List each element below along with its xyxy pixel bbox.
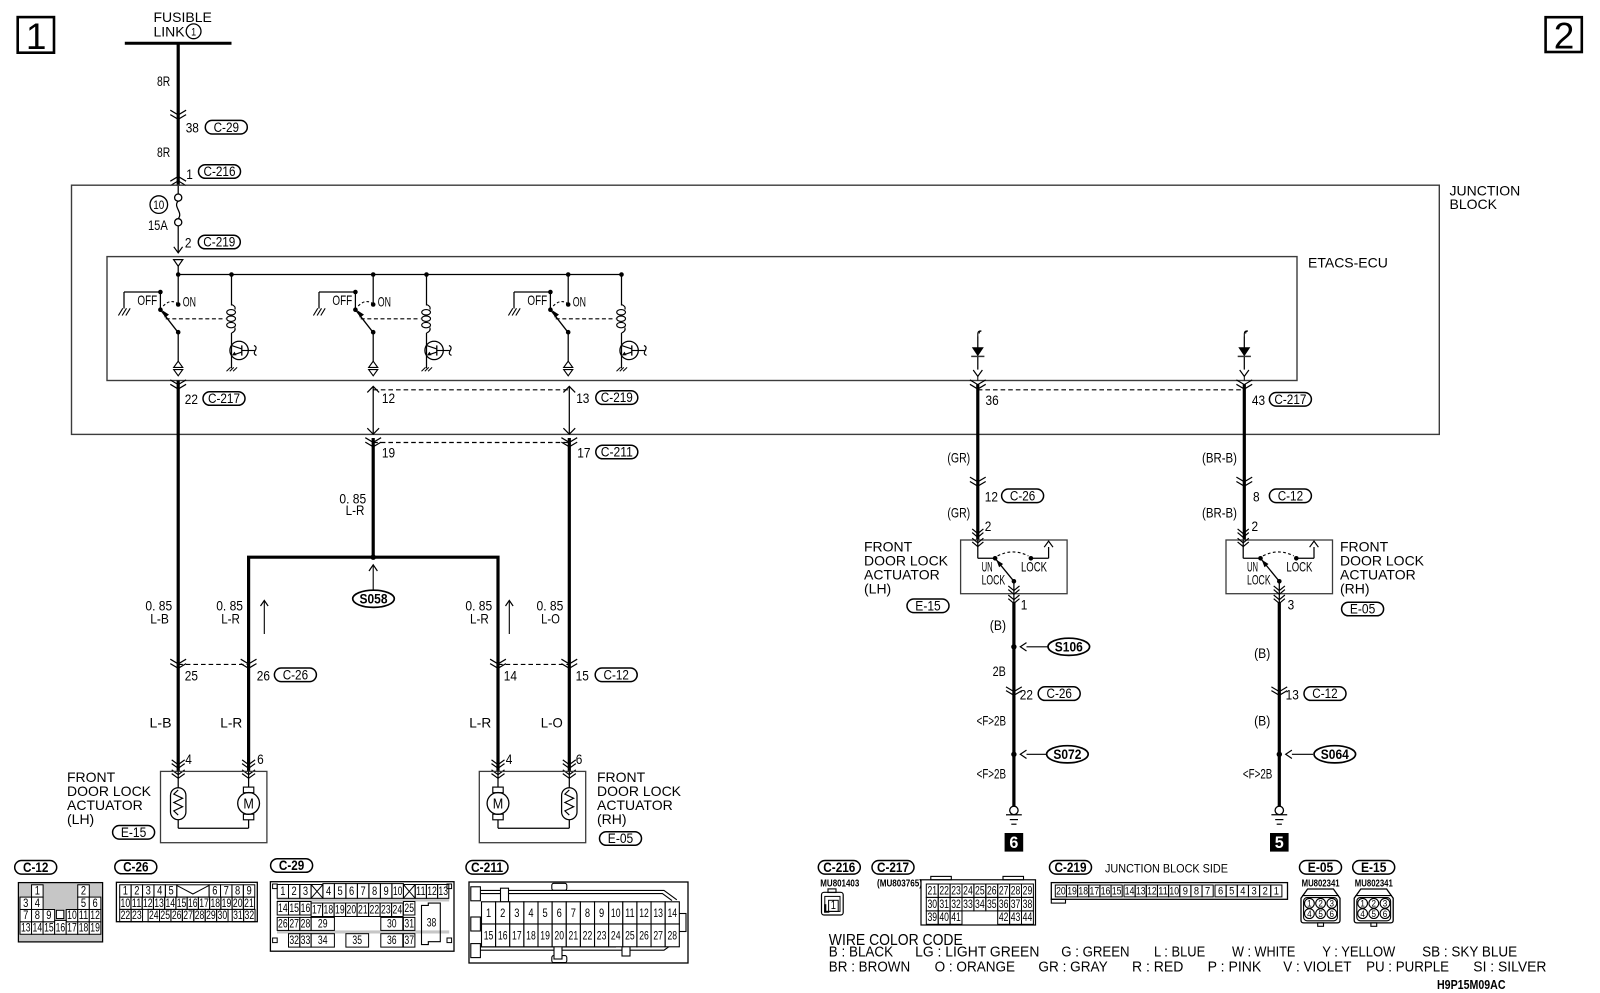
svg-text:18: 18 (324, 902, 334, 916)
svg-text:O : ORANGE: O : ORANGE (935, 959, 1016, 975)
svg-text:12: 12 (427, 884, 437, 898)
svg-text:36: 36 (387, 933, 397, 947)
svg-text:(GR): (GR) (947, 450, 970, 466)
svg-text:OFF: OFF (332, 292, 352, 308)
svg-text:20: 20 (1056, 886, 1066, 898)
svg-text:C-219: C-219 (601, 390, 633, 405)
svg-text:17: 17 (312, 902, 322, 916)
svg-text:31: 31 (939, 898, 949, 911)
svg-text:S064: S064 (1321, 747, 1349, 762)
svg-text:5: 5 (542, 906, 547, 920)
svg-text:17: 17 (577, 444, 590, 460)
svg-text:24: 24 (963, 884, 973, 897)
svg-text:12: 12 (382, 390, 395, 406)
svg-text:(GR): (GR) (947, 504, 970, 520)
svg-text:9: 9 (599, 906, 604, 920)
svg-text:C-211: C-211 (471, 860, 503, 875)
svg-text:22: 22 (370, 902, 380, 916)
svg-text:25: 25 (185, 668, 198, 684)
svg-text:ON: ON (573, 293, 586, 309)
svg-text:(LH): (LH) (67, 811, 94, 827)
svg-text:C-216: C-216 (204, 164, 236, 179)
svg-text:1: 1 (280, 884, 285, 898)
svg-text:M: M (243, 796, 254, 812)
svg-text:JUNCTION BLOCK SIDE: JUNCTION BLOCK SIDE (1105, 863, 1228, 875)
svg-text:15: 15 (289, 901, 299, 915)
svg-text:13: 13 (653, 906, 663, 920)
svg-text:E-05: E-05 (1308, 860, 1334, 875)
svg-text:6: 6 (1218, 886, 1223, 898)
svg-text:17: 17 (512, 929, 522, 943)
svg-text:7: 7 (571, 906, 576, 920)
svg-text:39: 39 (927, 911, 937, 924)
svg-text:23: 23 (597, 929, 607, 943)
svg-text:26: 26 (172, 908, 182, 922)
svg-text:4: 4 (185, 751, 192, 767)
svg-text:38: 38 (186, 119, 199, 135)
svg-text:34: 34 (975, 898, 985, 911)
svg-text:36: 36 (999, 898, 1009, 911)
svg-text:40: 40 (939, 911, 949, 924)
svg-text:10: 10 (611, 906, 621, 920)
svg-text:BLOCK: BLOCK (1450, 196, 1498, 212)
svg-text:22: 22 (583, 929, 593, 943)
svg-text:14: 14 (33, 921, 43, 935)
svg-text:L : BLUE: L : BLUE (1154, 945, 1205, 961)
svg-text:C-211: C-211 (601, 445, 633, 460)
svg-text:L-O: L-O (541, 611, 560, 627)
svg-text:36: 36 (986, 392, 999, 408)
svg-text:C-216: C-216 (823, 860, 855, 875)
svg-text:(RH): (RH) (597, 811, 627, 827)
svg-text:8R: 8R (157, 73, 170, 89)
svg-text:4: 4 (1307, 909, 1312, 920)
svg-text:33: 33 (301, 933, 311, 947)
svg-text:11: 11 (1158, 886, 1168, 898)
svg-text:27: 27 (999, 884, 1009, 897)
svg-text:31: 31 (404, 917, 414, 931)
svg-text:28: 28 (195, 908, 205, 922)
svg-text:6: 6 (349, 884, 354, 898)
svg-text:15: 15 (1112, 886, 1122, 898)
svg-text:C-26: C-26 (283, 667, 308, 682)
svg-text:16: 16 (1101, 886, 1111, 898)
svg-text:21: 21 (569, 929, 579, 943)
svg-text:4: 4 (326, 884, 331, 898)
svg-text:MU802341: MU802341 (1302, 877, 1340, 889)
svg-text:38: 38 (427, 916, 437, 930)
svg-text:44: 44 (1023, 911, 1033, 924)
svg-text:8: 8 (1253, 488, 1260, 504)
svg-text:W : WHITE: W : WHITE (1232, 945, 1296, 961)
svg-text:9: 9 (384, 884, 389, 898)
svg-text:30: 30 (218, 908, 228, 922)
svg-text:8R: 8R (157, 144, 170, 160)
svg-text:22: 22 (185, 391, 198, 407)
svg-text:43: 43 (1252, 392, 1265, 408)
svg-text:(B): (B) (990, 617, 1006, 633)
svg-text:10: 10 (1169, 886, 1179, 898)
svg-text:38: 38 (1023, 898, 1033, 911)
svg-text:13: 13 (1286, 686, 1299, 702)
svg-text:28: 28 (1011, 884, 1021, 897)
svg-text:2: 2 (985, 518, 992, 534)
svg-text:30: 30 (387, 917, 397, 931)
svg-text:OFF: OFF (527, 292, 547, 308)
svg-text:H9P15M09AC: H9P15M09AC (1437, 977, 1506, 992)
svg-text:LINK: LINK (154, 24, 186, 40)
svg-text:30: 30 (927, 898, 937, 911)
svg-text:E-15: E-15 (1361, 860, 1387, 875)
svg-text:15: 15 (44, 921, 54, 935)
svg-text:10: 10 (393, 884, 403, 898)
svg-text:21: 21 (358, 902, 368, 916)
svg-text:24: 24 (611, 929, 621, 943)
svg-text:24: 24 (393, 902, 403, 916)
svg-text:S072: S072 (1053, 747, 1081, 762)
svg-text:L-R: L-R (346, 502, 365, 518)
svg-text:5: 5 (338, 884, 343, 898)
svg-text:16: 16 (56, 921, 66, 935)
svg-text:32: 32 (951, 898, 961, 911)
svg-text:1: 1 (831, 898, 836, 912)
svg-text:R : RED: R : RED (1132, 959, 1183, 975)
svg-text:LOCK: LOCK (1021, 558, 1047, 574)
svg-text:LOCK: LOCK (982, 571, 1006, 587)
svg-text:L-R: L-R (220, 715, 242, 731)
svg-text:ETACS-ECU: ETACS-ECU (1308, 255, 1388, 271)
svg-text:26: 26 (987, 884, 997, 897)
svg-text:C-217: C-217 (877, 860, 909, 875)
svg-text:20: 20 (554, 929, 564, 943)
svg-text:32: 32 (289, 933, 299, 947)
svg-text:S058: S058 (360, 592, 388, 607)
svg-text:25: 25 (975, 884, 985, 897)
svg-text:B : BLACK: B : BLACK (829, 945, 894, 961)
svg-text:S106: S106 (1055, 640, 1083, 655)
svg-text:35: 35 (987, 898, 997, 911)
svg-text:<F>2B: <F>2B (977, 765, 1006, 781)
svg-text:43: 43 (1011, 911, 1021, 924)
svg-text:18: 18 (1078, 886, 1088, 898)
svg-text:16: 16 (498, 929, 508, 943)
svg-text:5: 5 (1275, 833, 1284, 852)
svg-text:C-12: C-12 (23, 860, 48, 875)
svg-text:28: 28 (301, 917, 311, 931)
svg-text:37: 37 (1011, 898, 1021, 911)
svg-text:13: 13 (1136, 886, 1146, 898)
svg-text:C-12: C-12 (1278, 488, 1303, 503)
svg-text:1: 1 (186, 166, 193, 182)
svg-text:M: M (493, 796, 504, 812)
svg-text:ON: ON (183, 293, 196, 309)
svg-text:4: 4 (1240, 886, 1245, 898)
svg-text:29: 29 (318, 917, 328, 931)
svg-text:L-R: L-R (469, 715, 491, 731)
svg-text:29: 29 (1023, 884, 1033, 897)
svg-text:(BR-B): (BR-B) (1202, 504, 1237, 520)
svg-text:C-12: C-12 (1312, 686, 1337, 701)
svg-text:2: 2 (1554, 16, 1575, 57)
svg-text:10: 10 (153, 198, 164, 212)
svg-text:17: 17 (67, 921, 77, 935)
svg-text:13: 13 (21, 921, 31, 935)
svg-text:24: 24 (149, 908, 159, 922)
svg-text:16: 16 (301, 901, 311, 915)
svg-text:L-O: L-O (541, 715, 563, 731)
svg-text:1: 1 (1021, 596, 1028, 612)
svg-text:42: 42 (999, 911, 1009, 924)
svg-text:31: 31 (233, 908, 243, 922)
svg-text:7: 7 (361, 884, 366, 898)
svg-text:2B: 2B (993, 663, 1006, 679)
svg-text:8: 8 (1194, 886, 1199, 898)
svg-text:SI : SILVER: SI : SILVER (1473, 959, 1546, 975)
svg-text:E-15: E-15 (915, 598, 940, 613)
svg-text:17: 17 (1090, 886, 1100, 898)
svg-text:E-05: E-05 (1350, 602, 1375, 617)
svg-text:19: 19 (1067, 886, 1077, 898)
svg-text:4: 4 (1360, 909, 1365, 920)
svg-text:(B): (B) (1254, 712, 1270, 728)
svg-text:5: 5 (1372, 909, 1377, 920)
svg-text:37: 37 (404, 933, 414, 947)
svg-text:34: 34 (318, 933, 328, 947)
svg-text:2: 2 (185, 234, 192, 250)
svg-text:29: 29 (206, 908, 216, 922)
svg-text:26: 26 (639, 929, 649, 943)
svg-text:22: 22 (1020, 686, 1033, 702)
svg-text:18: 18 (79, 921, 89, 935)
svg-text:GR : GRAY: GR : GRAY (1038, 959, 1108, 975)
svg-text:3: 3 (303, 884, 308, 898)
svg-text:E-05: E-05 (608, 831, 633, 846)
svg-text:C-29: C-29 (279, 858, 304, 873)
svg-text:2: 2 (292, 884, 297, 898)
svg-text:13: 13 (576, 390, 589, 406)
svg-text:2: 2 (1263, 886, 1268, 898)
svg-text:8: 8 (585, 906, 590, 920)
svg-text:PU : PURPLE: PU : PURPLE (1366, 959, 1449, 975)
svg-text:25: 25 (625, 929, 635, 943)
svg-text:P : PINK: P : PINK (1208, 959, 1262, 975)
svg-text:6: 6 (1009, 833, 1018, 852)
svg-text:9: 9 (1183, 886, 1188, 898)
svg-text:6: 6 (1383, 909, 1388, 920)
svg-text:7: 7 (1205, 886, 1210, 898)
svg-text:6: 6 (1330, 909, 1335, 920)
svg-text:33: 33 (963, 898, 973, 911)
svg-text:LG : LIGHT GREEN: LG : LIGHT GREEN (915, 945, 1039, 961)
svg-text:C-26: C-26 (1010, 488, 1035, 503)
svg-text:SB : SKY BLUE: SB : SKY BLUE (1422, 945, 1517, 961)
svg-text:4: 4 (506, 751, 513, 767)
svg-text:3: 3 (1251, 886, 1256, 898)
svg-text:(RH): (RH) (1340, 581, 1370, 597)
svg-text:ON: ON (378, 293, 391, 309)
svg-text:L-R: L-R (221, 611, 240, 627)
svg-text:25: 25 (160, 908, 170, 922)
svg-text:L-R: L-R (470, 611, 489, 627)
svg-text:2: 2 (500, 906, 505, 920)
svg-text:MU802341: MU802341 (1355, 877, 1393, 889)
svg-text:28: 28 (667, 929, 677, 943)
svg-text:19: 19 (335, 902, 345, 916)
svg-text:V : VIOLET: V : VIOLET (1283, 959, 1351, 975)
svg-text:1: 1 (1274, 886, 1279, 898)
svg-text:<F>2B: <F>2B (1243, 765, 1272, 781)
svg-text:C-26: C-26 (123, 860, 149, 875)
svg-text:21: 21 (927, 884, 937, 897)
svg-text:27: 27 (183, 908, 193, 922)
svg-text:25: 25 (404, 901, 414, 915)
svg-text:23: 23 (132, 908, 142, 922)
svg-text:G : GREEN: G : GREEN (1061, 945, 1129, 961)
svg-text:12: 12 (639, 906, 649, 920)
svg-text:1: 1 (26, 16, 47, 57)
svg-text:19: 19 (540, 929, 550, 943)
svg-text:(B): (B) (1254, 645, 1270, 661)
svg-text:<F>2B: <F>2B (977, 712, 1006, 728)
svg-text:5: 5 (1318, 909, 1323, 920)
svg-text:14: 14 (278, 901, 288, 915)
svg-text:6: 6 (257, 751, 264, 767)
svg-text:14: 14 (667, 906, 677, 920)
svg-text:14: 14 (504, 668, 517, 684)
svg-text:19: 19 (90, 921, 100, 935)
svg-text:27: 27 (653, 929, 663, 943)
svg-text:C-217: C-217 (1274, 392, 1306, 407)
svg-text:26: 26 (257, 668, 270, 684)
svg-text:2: 2 (1252, 518, 1259, 534)
svg-text:LOCK: LOCK (1247, 571, 1271, 587)
svg-text:22: 22 (121, 908, 131, 922)
svg-text:C-29: C-29 (214, 120, 239, 135)
svg-text:1: 1 (191, 26, 196, 38)
svg-text:3: 3 (1288, 596, 1295, 612)
svg-text:BR : BROWN: BR : BROWN (829, 959, 910, 975)
svg-text:C-219: C-219 (1055, 860, 1087, 875)
svg-text:LOCK: LOCK (1286, 558, 1312, 574)
svg-text:C-217: C-217 (208, 391, 240, 406)
svg-text:L-B: L-B (150, 715, 172, 731)
svg-text:1: 1 (486, 906, 491, 920)
svg-text:4: 4 (528, 906, 533, 920)
svg-text:19: 19 (382, 444, 395, 460)
svg-text:(LH): (LH) (864, 581, 891, 597)
svg-text:(BR-B): (BR-B) (1202, 450, 1237, 466)
svg-text:23: 23 (381, 902, 391, 916)
svg-text:C-219: C-219 (203, 235, 235, 250)
svg-text:20: 20 (347, 902, 357, 916)
svg-text:3: 3 (514, 906, 519, 920)
svg-text:11: 11 (625, 906, 635, 920)
svg-text:MU801403: MU801403 (820, 878, 859, 890)
svg-text:27: 27 (289, 917, 299, 931)
svg-text:6: 6 (557, 906, 562, 920)
svg-text:(MU803765): (MU803765) (877, 878, 922, 890)
svg-text:35: 35 (352, 933, 362, 947)
svg-text:8: 8 (372, 884, 377, 898)
svg-text:14: 14 (1125, 886, 1135, 898)
svg-text:26: 26 (278, 917, 288, 931)
svg-text:22: 22 (939, 884, 949, 897)
svg-text:C-12: C-12 (604, 667, 629, 682)
svg-text:5: 5 (1229, 886, 1234, 898)
svg-text:E-15: E-15 (121, 825, 146, 840)
svg-text:18: 18 (526, 929, 536, 943)
svg-text:OFF: OFF (137, 292, 157, 308)
svg-text:15: 15 (576, 668, 589, 684)
svg-text:L-B: L-B (150, 611, 169, 627)
svg-text:15: 15 (484, 929, 494, 943)
svg-text:Y : YELLOW: Y : YELLOW (1322, 945, 1395, 961)
svg-text:15A: 15A (148, 217, 168, 233)
svg-text:32: 32 (245, 908, 255, 922)
svg-text:6: 6 (576, 751, 583, 767)
svg-text:11: 11 (416, 884, 426, 898)
svg-text:41: 41 (951, 911, 961, 924)
svg-text:12: 12 (1147, 886, 1157, 898)
svg-text:C-26: C-26 (1047, 686, 1072, 701)
svg-text:23: 23 (951, 884, 961, 897)
svg-text:12: 12 (985, 488, 998, 504)
